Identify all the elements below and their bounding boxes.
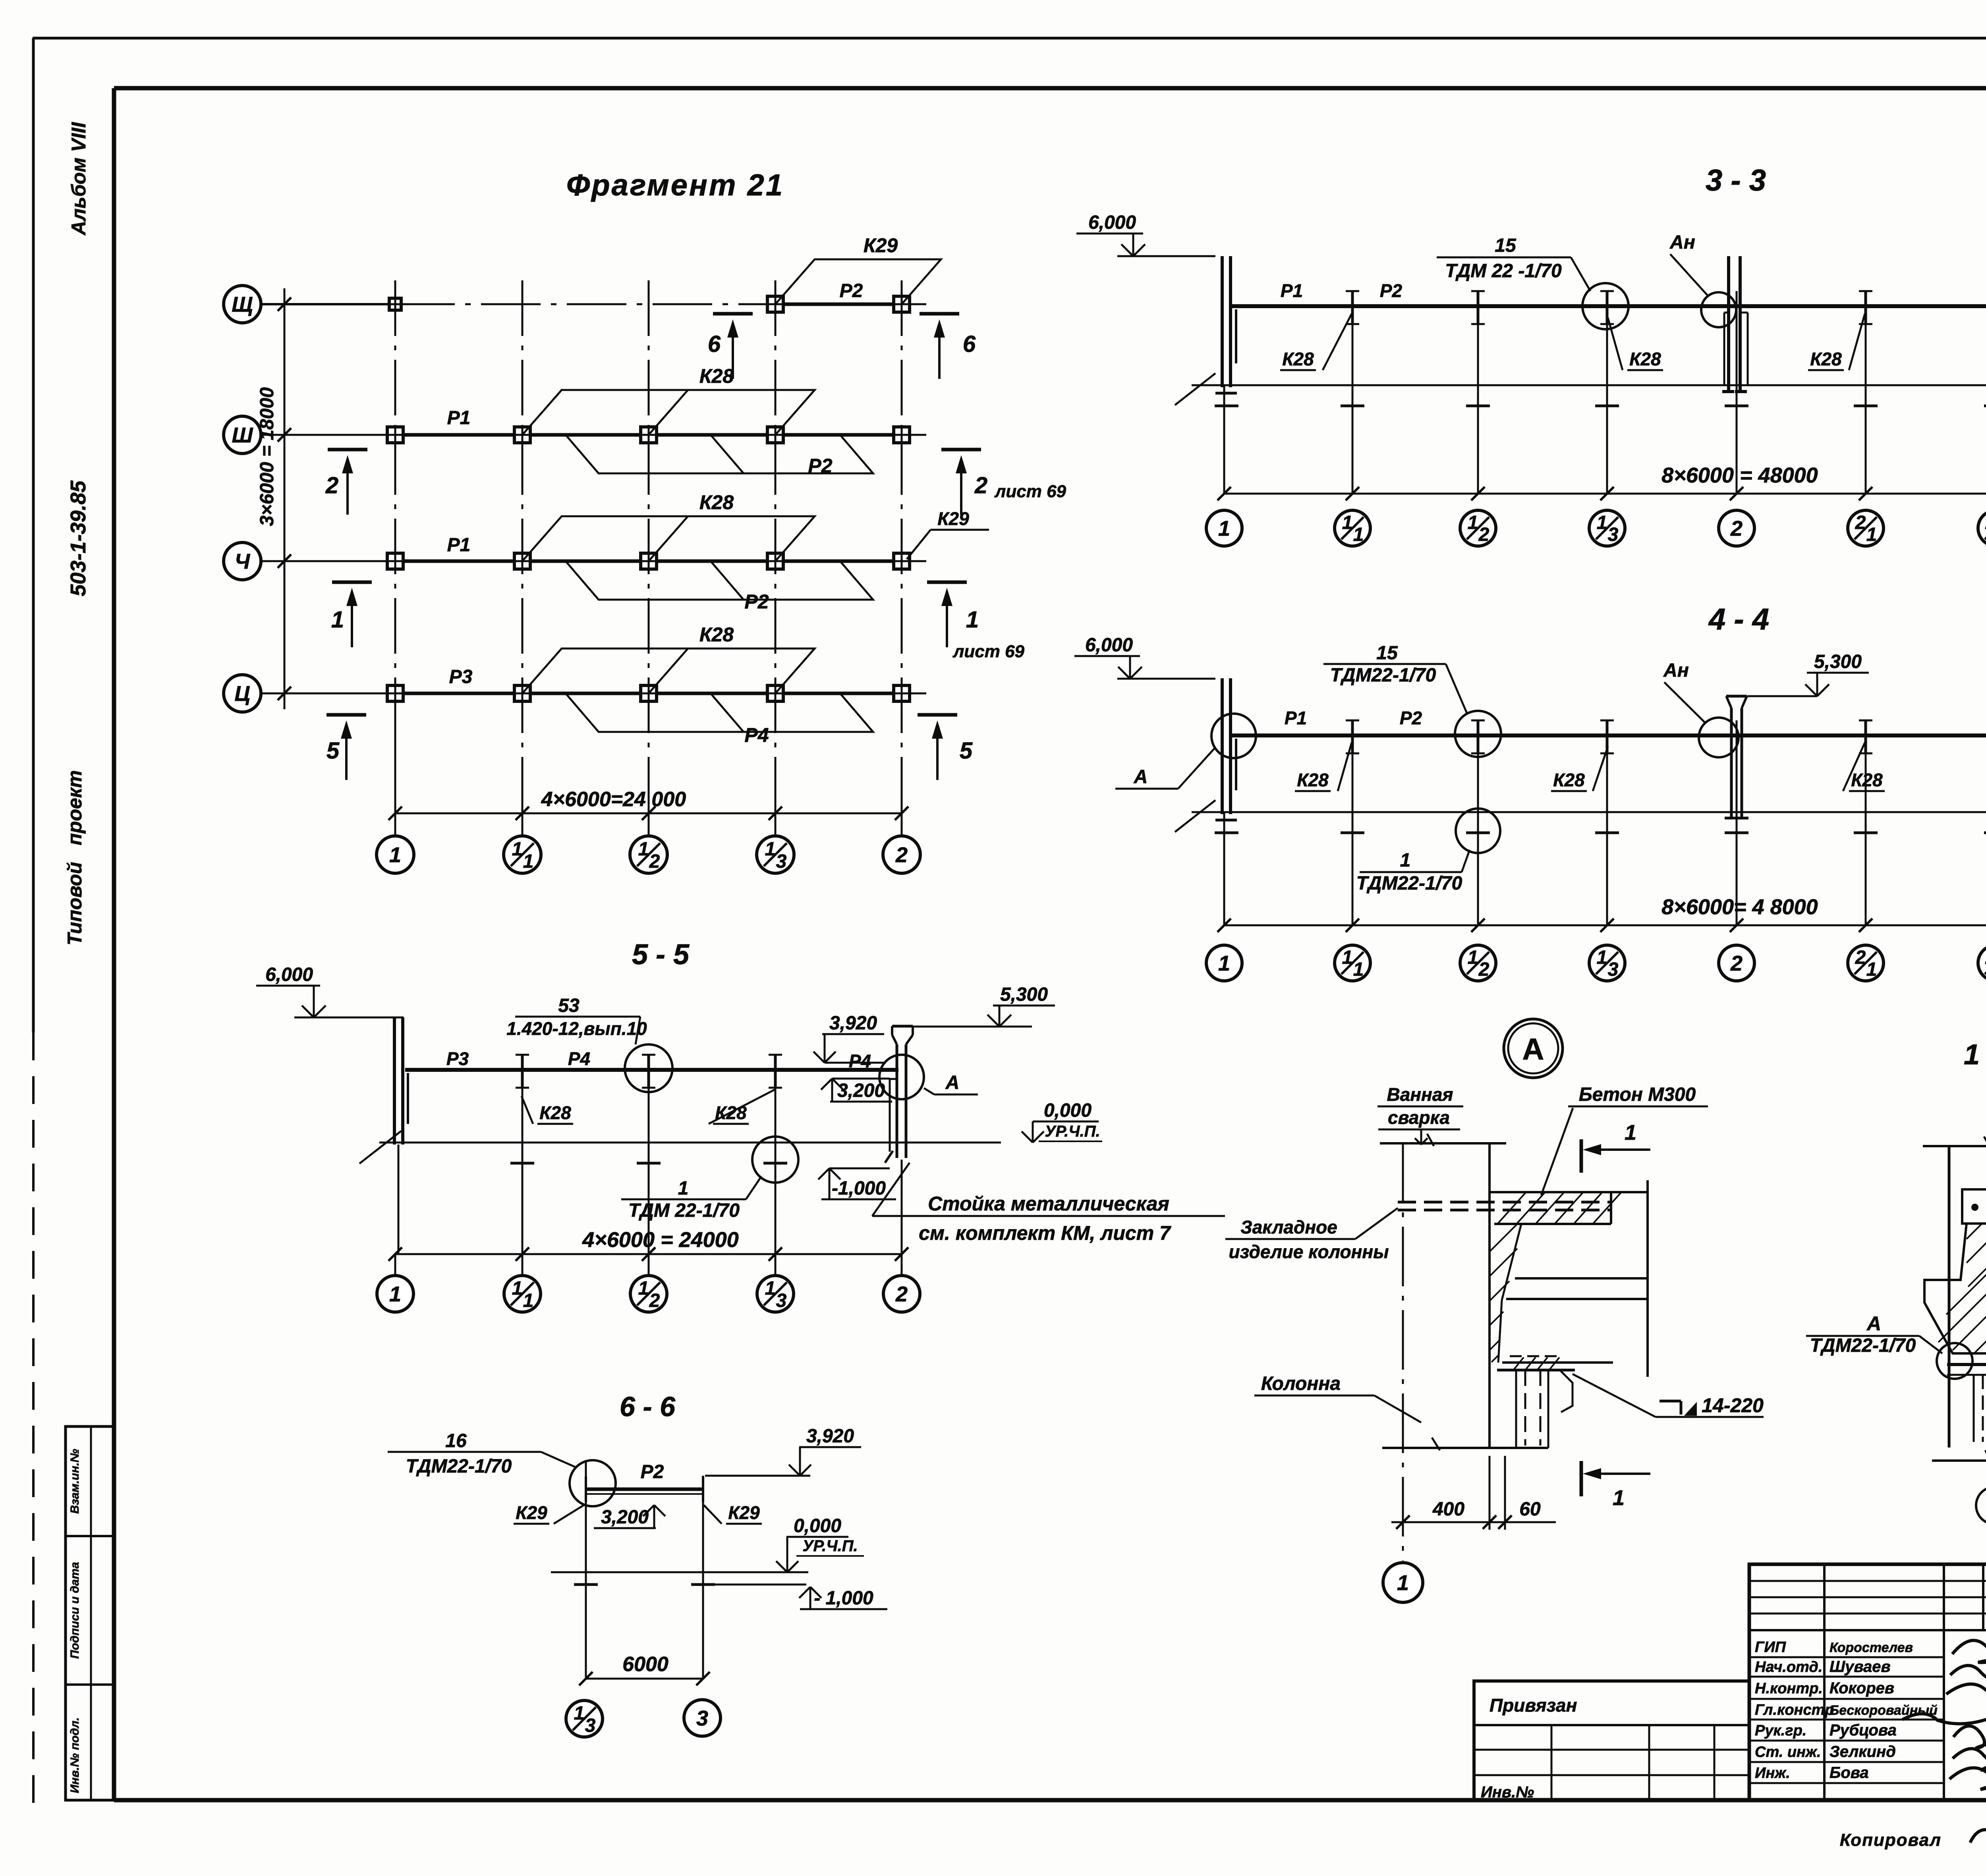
axis circles (6-6) [566,1700,603,1737]
svg-text:К28: К28 [699,491,734,513]
svg-text:Бескоровайный: Бескоровайный [1830,1703,1938,1718]
svg-text:2: 2 [649,1290,660,1311]
svg-text:Привязан: Привязан [1489,1695,1577,1716]
top line (1-1) [1923,1145,1986,1147]
svg-text:5,300: 5,300 [1814,651,1862,672]
staff table row lines [1749,1656,1944,1658]
svg-text:4×6000=24 000: 4×6000=24 000 [541,788,686,811]
dimension 400 / 60 (detail A) [1489,1456,1491,1530]
plate К29 (plan, above axis) [775,259,941,304]
svg-text:2: 2 [649,851,660,872]
svg-text:Р2: Р2 [840,280,863,301]
svg-text:2: 2 [1730,952,1743,975]
svg-text:60: 60 [1519,1499,1541,1520]
svg-text:К29: К29 [937,508,969,529]
column axis 1/3 [1606,720,1608,925]
svg-text:1: 1 [678,1178,689,1199]
svg-text:1: 1 [523,851,534,872]
svg-text:3,920: 3,920 [829,1013,877,1034]
svg-text:Ч: Ч [235,550,251,573]
section column circles [1206,945,1242,981]
svg-text:см. комплект КМ, лист 7: см. комплект КМ, лист 7 [919,1222,1171,1244]
svg-text:3: 3 [696,1706,708,1730]
anchor bolts (1-1) [1973,1375,1975,1442]
svg-text:К28: К28 [699,623,734,646]
svg-text:Взам.ин.№: Взам.ин.№ [68,1449,81,1513]
svg-text:Бова: Бова [1830,1764,1869,1781]
section mark 6 [920,312,959,316]
column hatch (1-1) [1967,1224,1982,1239]
staff table top empty rows [1749,1580,1986,1582]
weld detail circle + label А ТДМ22-1/70 (1-1) [1937,1343,1972,1379]
break mark [1175,373,1215,405]
below-ground level -1.000 (6-6) [705,1584,806,1586]
plan row axis Щ [261,303,395,305]
svg-text:16: 16 [445,1430,467,1451]
beam-column connection nodes [389,298,401,310]
columns 1/3 and 3 (6-6) [585,1461,587,1679]
svg-text:лист 69: лист 69 [952,642,1025,661]
svg-text:Нач.отд.: Нач.отд. [1755,1659,1822,1675]
svg-text:Инж.: Инж. [1755,1765,1790,1781]
svg-text:ТДМ22-1/70: ТДМ22-1/70 [1810,1335,1916,1356]
svg-text:1: 1 [1468,947,1478,968]
svg-text:1: 1 [1468,512,1478,533]
section column circles [1206,510,1242,546]
plate К28 (plan, above axis) [522,516,815,561]
svg-text:Р1: Р1 [1285,708,1307,728]
svg-text:ТДМ 22 -1/70: ТДМ 22 -1/70 [1445,261,1562,282]
svg-text:Кокорев: Кокорев [1830,1679,1894,1697]
svg-text:1: 1 [1342,947,1353,968]
svg-text:лист 69: лист 69 [994,482,1066,501]
bottom-left margin stamp table [66,1426,114,1800]
column axis 2 [1736,720,1738,925]
svg-text:Копировал: Копировал [1840,1830,1942,1850]
plan row axis Ч (beams Р1) [261,560,395,562]
svg-text:1: 1 [1400,850,1411,871]
svg-text:Р2: Р2 [744,591,769,613]
ground line (6-6) [551,1571,808,1573]
svg-text:3: 3 [1608,524,1619,545]
svg-text:ТДМ22-1/70: ТДМ22-1/70 [1330,665,1436,686]
svg-text:Зелкинд: Зелкинд [1830,1743,1896,1760]
svg-text:К28: К28 [539,1102,571,1123]
section mark 1 [332,581,372,584]
svg-text:53: 53 [558,995,580,1016]
roof beam chord (Р1/Р2) [1231,733,1986,737]
dimension line 8x6000=48000 [1224,493,1986,495]
svg-text:2: 2 [1730,517,1743,540]
svg-text:15: 15 [1495,235,1517,256]
beam horizontal edges [1515,1277,1648,1280]
svg-text:1: 1 [638,839,649,860]
svg-text:1: 1 [1342,512,1353,533]
plan row axis Ц (beams Р3) [261,693,395,695]
break mark [1175,800,1215,832]
svg-text:400: 400 [1432,1499,1464,1520]
svg-text:0,000: 0,000 [1044,1100,1092,1121]
svg-text:503-1-39.85: 503-1-39.85 [66,480,90,596]
plate Р2 (plan, below axis) [566,561,873,600]
column axis 2 [1736,291,1738,494]
column top line [1380,1142,1506,1145]
dimension line 8x6000=48000 [1224,924,1986,926]
circle at col 1/3 foot + label 1/ТДМ 22-1/70 (5-5) [752,1137,798,1183]
svg-text:3,200: 3,200 [837,1080,885,1101]
svg-text:К28: К28 [1282,349,1314,369]
svg-text:1: 1 [389,1282,401,1306]
beam slab top (Бетон М300 zone) [1489,1191,1648,1193]
svg-text:Колонна: Колонна [1261,1373,1341,1394]
break mark [359,1131,401,1164]
svg-text:изделие колонны: изделие колонны [1229,1241,1389,1262]
svg-text:1: 1 [638,1278,649,1299]
svg-text:3: 3 [1608,959,1619,980]
anchor studs [1515,1370,1517,1448]
svg-text:1: 1 [1597,512,1607,533]
plate К28 (plan, above axis) [522,390,815,435]
left end post (column 1) [1221,678,1224,814]
attached table Привязан [1474,1681,1749,1800]
svg-text:2: 2 [895,1282,908,1306]
svg-text:1: 1 [765,1278,776,1299]
left end post (4-4) already via function; circle A [1211,714,1256,758]
svg-text:Коростелев: Коростелев [1830,1640,1913,1655]
embedded plate (dashed) [1398,1201,1612,1204]
beam Р2 (6-6) [586,1488,703,1491]
svg-text:К28: К28 [1553,770,1585,790]
svg-text:5 - 5: 5 - 5 [632,939,690,971]
level line 3.920 + mark (6-6) [705,1475,810,1477]
svg-text:2: 2 [1478,524,1489,545]
svg-text:Бетон М300: Бетон М300 [1579,1084,1696,1105]
plan row axis Ш (beams Р1) [261,434,395,436]
svg-text:ТДМ 22-1/70: ТДМ 22-1/70 [628,1200,740,1221]
svg-text:Ан: Ан [1663,660,1689,681]
svg-text:1: 1 [389,843,401,867]
svg-text:-1,000: -1,000 [832,1178,886,1199]
svg-text:6,000: 6,000 [265,964,313,985]
svg-text:Н.контр.: Н.контр. [1755,1680,1823,1697]
section mark 1 [927,581,967,584]
svg-text:Щ: Щ [232,293,253,317]
column axis line (detail A) [1402,1143,1404,1561]
svg-text:6 - 6: 6 - 6 [620,1391,676,1422]
svg-text:1: 1 [1353,959,1364,980]
support bracket [1510,1355,1560,1357]
svg-text:Р3: Р3 [449,666,473,687]
ground line (5-5) [379,1142,1001,1144]
svg-text:К28: К28 [1297,770,1329,790]
left post foot [1215,392,1237,395]
detail marker circle А [1504,1019,1563,1078]
column bottom line [1382,1447,1548,1449]
svg-text:1: 1 [1597,947,1607,968]
column axis 1/1 [1352,291,1354,494]
svg-text:4 - 4: 4 - 4 [1708,602,1769,636]
svg-text:Альбом VIII: Альбом VIII [68,122,90,236]
svg-text:Р4: Р4 [849,1051,871,1071]
svg-text:1: 1 [574,1703,585,1724]
section cut marks 1-1 (detail A) [1580,1139,1583,1173]
svg-text:2: 2 [1478,959,1489,980]
column axis 2/1 [1865,291,1867,494]
monolith joint taper [1502,1224,1521,1300]
monolith hatch [1490,1223,1518,1251]
svg-text:1: 1 [523,1290,534,1311]
svg-text:6: 6 [708,331,721,357]
svg-text:Р4: Р4 [568,1048,590,1069]
plan bottom axis circles 1 .. 2 [394,813,396,836]
plate Р2 (plan, below axis) [566,435,873,473]
svg-text:Р1: Р1 [447,407,471,428]
stand walls (1-1) [1948,1146,1951,1448]
svg-text:1: 1 [512,1278,523,1299]
svg-text:3: 3 [585,1715,596,1736]
svg-text:1: 1 [1613,1486,1625,1510]
plan row axis circles Щ Ш Ч Ц [224,286,261,323]
column axis 1/2 [1477,291,1479,494]
outer page border [33,37,1986,40]
svg-text:1: 1 [1218,952,1230,975]
svg-text:14-220: 14-220 [1702,1394,1764,1417]
columns 1/1 1/2 1/3 (5-5) [522,1055,524,1254]
svg-text:Фрагмент 21: Фрагмент 21 [566,168,784,202]
svg-text:сварка: сварка [1388,1107,1450,1128]
svg-text:Подписи и дата: Подписи и дата [68,1562,81,1659]
svg-text:5: 5 [326,738,340,764]
svg-text:К29: К29 [516,1502,547,1523]
svg-text:1: 1 [765,839,776,860]
svg-text:К28: К28 [1851,770,1883,790]
svg-text:Р4: Р4 [744,724,769,746]
staff table columns [1823,1564,1826,1800]
svg-text:Закладное: Закладное [1240,1217,1337,1237]
svg-text:5: 5 [960,738,973,764]
svg-text:4×6000 = 24000: 4×6000 = 24000 [582,1228,738,1252]
steel stanchion [1730,708,1733,818]
column axis 1/1 [1352,720,1354,925]
svg-text:2: 2 [1855,947,1866,968]
svg-text:Р2: Р2 [1400,708,1422,728]
svg-text:8×6000= 4 8000: 8×6000= 4 8000 [1661,895,1818,919]
svg-text:3,200: 3,200 [601,1507,649,1528]
svg-text:1: 1 [512,839,523,860]
dimension line 4x6000=24000 (5-5) [395,1253,902,1255]
section mark 5 [326,713,366,717]
svg-text:Ц: Ц [234,682,250,706]
left end post col 1 (5-5) [393,1017,396,1145]
svg-text:6: 6 [963,331,976,357]
axis circle (буквенные оси) (1-1) [1976,1487,1986,1524]
plate Р4 (plan, below axis) [566,693,873,732]
section mark 6 [713,312,753,316]
svg-text:К29: К29 [728,1502,760,1523]
svg-text:Р2: Р2 [1380,280,1403,301]
svg-text:6,000: 6,000 [1088,212,1136,233]
plan left vertical dimension line 3x6000=18000 [284,288,286,709]
stanchion at col 2 (5-5) [896,1044,898,1158]
left post foot [1215,819,1237,822]
svg-text:0,000: 0,000 [794,1515,841,1536]
svg-text:1: 1 [1866,524,1877,545]
svg-text:- 1,000: - 1,000 [814,1588,873,1609]
svg-text:А: А [1866,1312,1881,1335]
svg-text:А: А [1134,766,1148,787]
svg-text:УР.Ч.П.: УР.Ч.П. [1045,1123,1100,1140]
svg-text:1: 1 [1353,524,1364,545]
column axis 2/1 [1865,720,1867,925]
svg-text:1: 1 [1625,1121,1636,1145]
beam line (5-5) [405,1068,898,1072]
svg-text:Шуваев: Шуваев [1830,1658,1891,1675]
svg-text:1: 1 [966,607,979,633]
ground line (УР.Ч.П.) [1192,811,1986,813]
concrete column shape (1-1) [1962,1189,1986,1224]
svg-text:Ш: Ш [232,423,253,447]
svg-text:К28: К28 [1629,349,1661,369]
section mark 2 [328,448,367,452]
signatures (scribbles) [1952,1641,1986,1688]
section mark 5 [918,713,957,717]
svg-text:А: А [945,1072,960,1093]
staff table outline [1749,1564,1986,1800]
base plate (1-1) [1947,1363,1986,1366]
svg-text:УР.Ч.П.: УР.Ч.П. [802,1537,858,1555]
svg-text:1 - 1: 1 - 1 [1964,1039,1986,1071]
svg-text:3,920: 3,920 [806,1426,854,1447]
left end post (column 1) [1221,256,1224,387]
svg-text:2: 2 [325,473,338,498]
plan bottom dimension line 4x6000=24000 [395,813,902,814]
slab hatch [1497,1192,1526,1224]
inner drawing frame [114,86,1986,91]
svg-text:3: 3 [776,1290,787,1311]
svg-text:К28: К28 [1810,349,1842,369]
svg-text:Стойка металлическая: Стойка металлическая [928,1193,1169,1215]
svg-text:3 - 3: 3 - 3 [1706,164,1766,197]
ground line (УР.Ч.П.) [1192,384,1986,386]
svg-text:8×6000 = 48000: 8×6000 = 48000 [1661,463,1818,487]
weld symbol 14-220 with leader [1573,1374,1656,1417]
svg-text:5,300: 5,300 [1000,984,1048,1005]
beam right edge [1646,1180,1649,1377]
svg-text:Р3: Р3 [446,1048,469,1069]
svg-text:Р2: Р2 [641,1461,664,1482]
svg-text:Рук.гр.: Рук.гр. [1755,1722,1806,1739]
svg-text:ТДМ22-1/70: ТДМ22-1/70 [1356,873,1462,894]
svg-text:ГИП: ГИП [1755,1639,1786,1656]
svg-text:6,000: 6,000 [1085,635,1133,656]
svg-text:Инв.№ подл.: Инв.№ подл. [68,1717,81,1793]
column axis 1/3 [1606,291,1608,494]
svg-text:1: 1 [1218,517,1230,540]
circle + А label at stanchion head (5-5) [879,1055,924,1099]
svg-text:Ванная: Ванная [1387,1084,1453,1105]
svg-text:1: 1 [1397,1571,1409,1595]
svg-text:ТДМ22-1/70: ТДМ22-1/70 [406,1456,512,1477]
svg-text:К29: К29 [864,234,898,257]
svg-text:Гл.констр: Гл.констр [1755,1702,1834,1718]
anchor post at column 2 [1727,256,1730,390]
svg-text:Р2: Р2 [808,455,832,477]
column axis 1/2 [1477,720,1479,925]
svg-text:Инв.№: Инв.№ [1481,1783,1534,1801]
section 5-5 axis circles [394,1254,396,1276]
svg-text:2: 2 [895,843,908,867]
svg-text:2: 2 [1855,512,1866,533]
column right face [1488,1143,1491,1448]
svg-text:К28: К28 [699,365,734,387]
svg-text:Рубцова: Рубцова [1830,1722,1897,1739]
dimension line 6000 (6-6) [586,1678,703,1680]
svg-text:Ан: Ан [1669,232,1695,253]
svg-text:3: 3 [776,851,787,872]
plan column axes (vertical grid lines) [394,280,396,813]
svg-text:1.420-12,вып.10: 1.420-12,вып.10 [506,1018,647,1039]
svg-text:6000: 6000 [622,1653,668,1676]
svg-text:3×6000 = 18000: 3×6000 = 18000 [257,387,278,526]
svg-text:1: 1 [1866,959,1877,980]
bottom line (1-1) [1932,1459,1986,1462]
axis circle 1 (detail A) [1383,1563,1423,1602]
section mark 2 [941,448,981,452]
plate К28 (plan, above axis) [522,648,815,693]
svg-text:15: 15 [1376,643,1398,664]
svg-text:1: 1 [331,607,344,633]
svg-text:Р1: Р1 [447,535,471,556]
svg-text:А: А [1522,1033,1544,1066]
svg-text:Р1: Р1 [1281,280,1303,301]
svg-text:2: 2 [974,473,987,498]
svg-text:Ст. инж.: Ст. инж. [1755,1744,1821,1760]
svg-text:Типовой проект: Типовой проект [64,770,86,945]
roof beam chord (Р1/Р2) [1231,304,1986,308]
